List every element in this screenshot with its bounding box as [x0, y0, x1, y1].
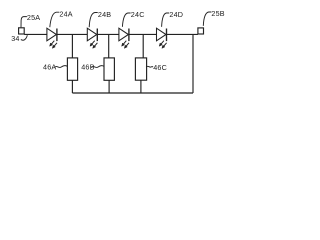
svg-text:25A: 25A	[27, 13, 40, 22]
svg-text:24A: 24A	[59, 10, 72, 19]
svg-text:24B: 24B	[98, 10, 111, 19]
svg-text:24D: 24D	[169, 10, 183, 19]
svg-text:24C: 24C	[131, 10, 145, 19]
svg-text:25B: 25B	[211, 9, 224, 18]
svg-text:34: 34	[11, 34, 19, 43]
svg-text:46A: 46A	[43, 63, 56, 72]
svg-text:46B: 46B	[81, 63, 94, 72]
svg-text:46C: 46C	[153, 63, 167, 72]
